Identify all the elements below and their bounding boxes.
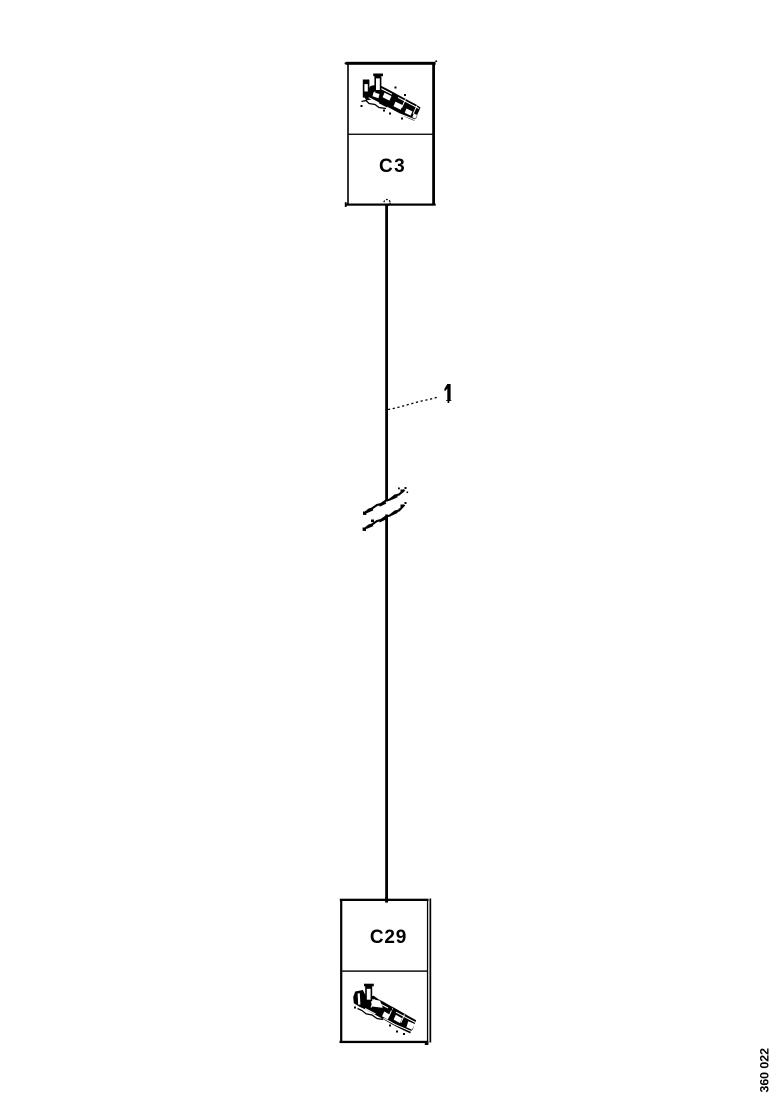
C29 inner right border <box>427 899 428 1041</box>
tall pin <box>364 985 374 1001</box>
specks <box>383 110 385 112</box>
left pin <box>364 80 369 97</box>
wire break upper slash <box>363 487 408 515</box>
C3 top border <box>346 62 436 65</box>
C29 bottom border <box>340 1041 429 1043</box>
terminal icon in C29 <box>353 985 416 1035</box>
wire upper segment <box>385 204 388 502</box>
svg-text:C29: C29 <box>370 927 407 948</box>
corner ticks <box>345 63 348 65</box>
inner white break lines of band <box>378 1003 416 1023</box>
C29 left border <box>340 899 342 1042</box>
C3 right border <box>432 62 435 206</box>
connector C3 box <box>345 60 437 207</box>
connector C29 box <box>340 899 432 1046</box>
svg-text:360 022: 360 022 <box>758 1048 772 1093</box>
jagged lower-left edge <box>362 101 387 109</box>
C29 outer right border <box>430 899 432 1043</box>
wire stub into C29 <box>385 897 388 903</box>
tall pin <box>373 75 383 91</box>
terminal body mass <box>353 990 416 1033</box>
label 1 <box>444 384 451 403</box>
wire break lower slash <box>363 502 407 531</box>
jagged lower edge <box>358 1009 384 1020</box>
C3 left border <box>347 62 349 205</box>
C3 divider line <box>348 134 433 135</box>
leader dotted line <box>388 397 439 410</box>
C29 top border <box>340 899 429 901</box>
pin circle at C3 exit <box>384 200 390 206</box>
terminal body mass <box>364 85 420 121</box>
inner white break lines of band <box>381 89 419 109</box>
wire lower segment <box>385 515 388 903</box>
svg-text:C3: C3 <box>379 156 406 177</box>
C3 bottom border <box>346 204 435 206</box>
specks <box>396 1031 398 1033</box>
C29 divider line <box>342 970 428 971</box>
terminal icon in C3 <box>361 75 421 121</box>
